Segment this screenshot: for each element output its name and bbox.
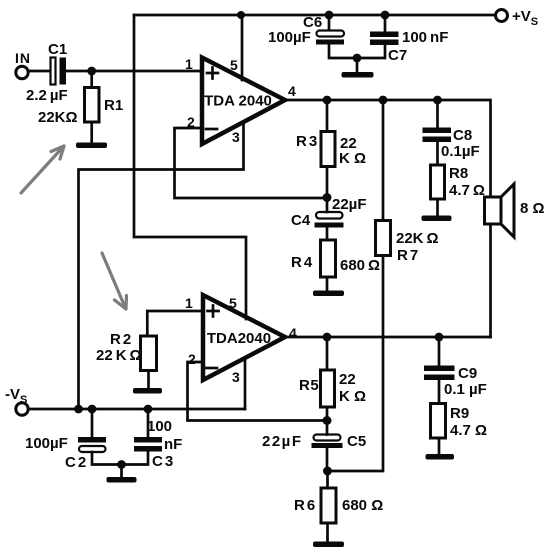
svg-text:R1: R1 (104, 97, 123, 114)
svg-text:680 Ω: 680 Ω (340, 257, 380, 274)
capacitor C8 (423, 100, 452, 165)
node rail/C7 (381, 11, 390, 20)
node rail/C2 (88, 405, 97, 414)
terminal -Vs (16, 403, 28, 415)
resistor R7 (376, 221, 391, 256)
wire speaker bottom to out2 (489, 224, 492, 337)
node out2/R5 (323, 333, 332, 342)
node out1/R3 (323, 96, 332, 105)
svg-text:100µF: 100µF (25, 435, 68, 452)
resistor R2 (141, 336, 157, 388)
svg-text:3: 3 (232, 129, 240, 145)
ground C6/C7 (342, 58, 374, 78)
svg-text:R9: R9 (450, 405, 469, 422)
ground R1 (76, 143, 107, 149)
node rail/C3 (144, 405, 153, 414)
svg-text:K Ω: K Ω (339, 388, 366, 405)
resistor R9 (431, 404, 446, 455)
capacitor C2 (78, 409, 122, 465)
svg-text:100: 100 (147, 418, 172, 435)
svg-text:R3: R3 (296, 133, 319, 150)
capacitor C1 (51, 58, 67, 85)
gray arrow 1 (21, 146, 64, 193)
wire R7 column from out1 to C5/R6 node (382, 100, 385, 221)
svg-text:R7: R7 (397, 247, 420, 264)
svg-text:R5: R5 (299, 377, 319, 394)
svg-text:K Ω: K Ω (339, 150, 366, 167)
svg-text:C2: C2 (65, 454, 88, 471)
svg-text:22KΩ: 22KΩ (38, 109, 78, 126)
svg-text:2: 2 (188, 351, 196, 367)
svg-text:nF: nF (164, 436, 182, 453)
ground R9 (426, 454, 455, 460)
ground R4 (313, 291, 344, 297)
wire +Vs top rail (134, 14, 495, 17)
svg-text:TDA2040: TDA2040 (207, 330, 271, 347)
svg-text:22µF: 22µF (332, 196, 367, 213)
svg-text:4: 4 (289, 325, 297, 341)
svg-text:680 Ω: 680 Ω (342, 497, 383, 514)
node C6/C7 ground junction (353, 54, 362, 63)
resistor R3 (321, 100, 335, 198)
svg-text:4.7 Ω: 4.7 Ω (450, 422, 487, 439)
wire -Vs rail (29, 408, 246, 411)
svg-text:8 Ω: 8 Ω (520, 200, 545, 217)
node C1/R1 (87, 67, 96, 76)
wire +Vs left drop to U2 pin5 (134, 15, 246, 319)
node out1/C8 (433, 96, 442, 105)
capacitor C5 (312, 421, 343, 472)
op-amp U1 TDA2040 (202, 58, 285, 145)
wire C1 to U1 pin1 (66, 70, 202, 73)
terminal +Vs (496, 10, 508, 22)
gray arrow 2 (102, 253, 127, 309)
svg-text:C4: C4 (291, 212, 311, 229)
wire R7 bottom to C5/R6 node (328, 256, 384, 472)
svg-text:22µF: 22µF (262, 433, 303, 450)
terminal IN (16, 66, 28, 78)
wire U1 pin3 to -Vs rail (79, 123, 244, 409)
node rail/U1 pin5 (237, 11, 245, 19)
svg-text:4: 4 (288, 83, 296, 99)
wire U2 output line (285, 336, 491, 339)
svg-text:R8: R8 (449, 165, 468, 182)
svg-text:C7: C7 (388, 47, 407, 64)
node C2/C3 ground junction (117, 460, 126, 469)
svg-text:0.1 µF: 0.1 µF (444, 381, 487, 398)
op-amp U2 TDA2040 (203, 295, 285, 380)
resistor R5 (321, 337, 335, 421)
resistor R4 (321, 240, 336, 291)
svg-text:22: 22 (339, 371, 356, 388)
capacitor C6 (316, 15, 357, 58)
svg-text:22 K Ω: 22 K Ω (96, 347, 142, 364)
speaker 8 Ohm (485, 184, 515, 237)
svg-text:5: 5 (229, 295, 237, 311)
node out1/R7 (379, 96, 388, 105)
svg-text:TDA 2040: TDA 2040 (204, 93, 272, 110)
resistor R6 (321, 471, 336, 542)
svg-text:IN: IN (15, 50, 31, 66)
svg-text:100 nF: 100 nF (402, 29, 448, 46)
resistor R1 (85, 71, 100, 143)
resistor R8 (431, 165, 445, 216)
node out2/C9 (435, 333, 444, 342)
svg-text:4.7 Ω: 4.7 Ω (449, 182, 485, 199)
svg-text:R6: R6 (294, 497, 317, 514)
svg-text:1: 1 (185, 295, 193, 311)
capacitor C3 (122, 409, 163, 465)
node C5/R6/R7 (323, 467, 332, 476)
svg-text:C5: C5 (347, 433, 366, 450)
wire U2 pin1 to R2 (147, 311, 203, 336)
svg-text:C1: C1 (48, 41, 67, 58)
ground R8 (422, 216, 452, 222)
svg-text:22K Ω: 22K Ω (396, 230, 439, 247)
capacitor C9 (424, 337, 455, 404)
ground R6 (313, 542, 344, 548)
capacitor C4 (315, 198, 344, 240)
svg-text:R2: R2 (110, 331, 133, 348)
svg-text:C9: C9 (458, 365, 477, 382)
node R5/C5/pin2 (323, 416, 332, 425)
svg-text:100µF: 100µF (268, 29, 311, 46)
wire U1 pin5 to rail (241, 15, 244, 80)
node rail/C6 (325, 11, 334, 20)
wire U2 pin3 to -Vs rail (244, 358, 247, 409)
node rail/U1pin3 (74, 405, 83, 414)
svg-text:0.1µF: 0.1µF (441, 143, 480, 160)
wire IN to C1 (29, 70, 51, 73)
node R3/C4/pin2 (323, 193, 332, 202)
capacitor C7 (357, 15, 399, 58)
wire U1 output line (285, 100, 491, 197)
svg-text:3: 3 (232, 369, 240, 385)
wire U1 pin2 feedback to R3/C4 node (175, 128, 328, 198)
svg-text:5: 5 (230, 57, 238, 73)
svg-text:2.2 µF: 2.2 µF (26, 87, 68, 104)
svg-text:R4: R4 (291, 254, 314, 271)
svg-text:C3: C3 (152, 453, 175, 470)
svg-text:1: 1 (185, 56, 193, 72)
svg-text:C8: C8 (453, 127, 472, 144)
ground C2/C3 (107, 465, 137, 483)
wire U2 pin2 to R5/C5 node (188, 362, 328, 421)
ground R2 (133, 388, 162, 394)
